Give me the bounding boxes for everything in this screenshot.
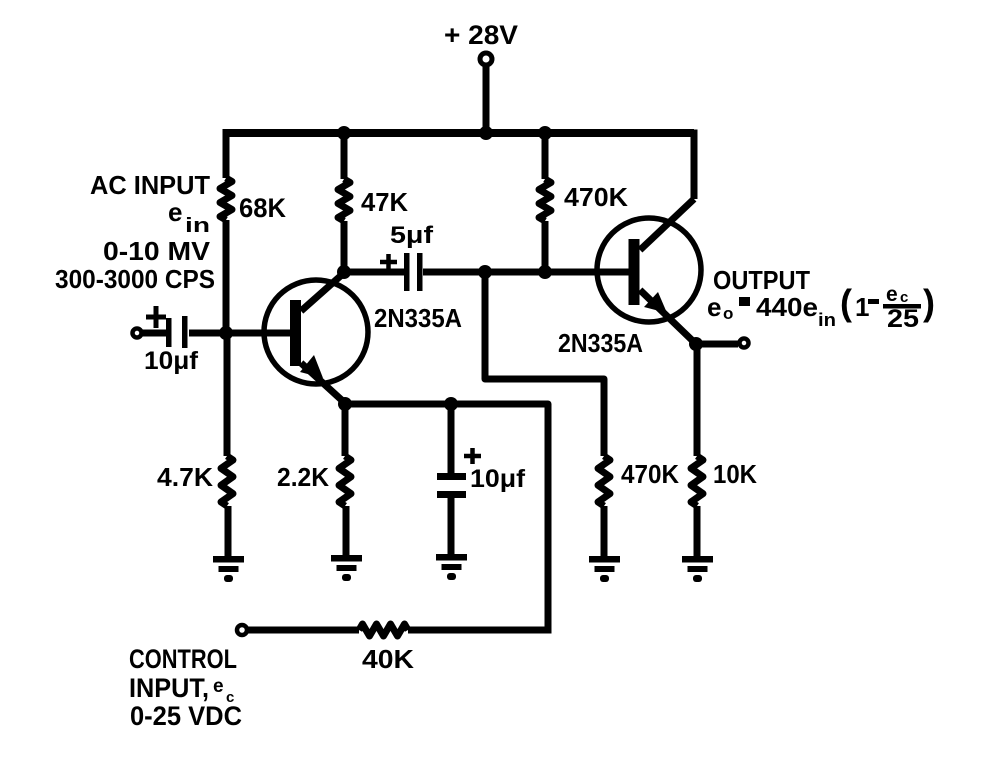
ground 10K: [682, 556, 713, 582]
wire Q2 emitter to output and 10K: [696, 341, 738, 348]
svg-text:AC INPUT: AC INPUT: [90, 170, 210, 200]
svg-text:440e: 440e: [756, 292, 818, 322]
resistor 10K: [691, 456, 703, 506]
svg-text:OUTPUT: OUTPUT: [713, 265, 810, 295]
ground 2.2K: [331, 555, 362, 581]
terminal output: [740, 339, 749, 348]
wire 5uf cap to Q2 base: [423, 269, 629, 276]
svg-text:e: e: [168, 197, 182, 227]
capacitor 5uf: [380, 253, 423, 291]
wire 470K-bottom to ground: [601, 506, 608, 559]
ground 10uf: [436, 554, 467, 580]
svg-text:10μf: 10μf: [470, 465, 526, 493]
svg-text:e: e: [213, 676, 224, 697]
wire input cap to base Q1: [189, 330, 291, 337]
svg-text:1: 1: [855, 292, 869, 322]
wire Q2 base bias to 470K-bottom: [485, 269, 604, 457]
wire collector node to 5uf cap: [344, 269, 404, 276]
node emitter2-output: [689, 337, 703, 351]
svg-text:470K: 470K: [564, 182, 628, 212]
svg-text:470K: 470K: [621, 459, 679, 489]
wire +28V drop: [483, 62, 490, 133]
node emitter1: [338, 397, 352, 411]
capacitor bypass 10uf: [437, 448, 481, 498]
wire Q1 emitter to 2.2K: [342, 404, 349, 456]
label INPUT e_c: [129, 673, 234, 706]
svg-text:c: c: [900, 289, 908, 306]
svg-text:0-25 VDC: 0-25 VDC: [130, 701, 242, 731]
wire 40K to emitter corner: [408, 627, 552, 634]
resistor 40K: [359, 624, 408, 636]
wire 470K-top branch upper: [542, 130, 549, 180]
svg-text:2.2K: 2.2K: [277, 462, 329, 492]
resistor 2.2K: [339, 456, 351, 506]
wire 10K to ground: [694, 506, 701, 559]
wire 4.7K to ground: [225, 506, 232, 558]
resistor R 4.7K: [221, 456, 233, 506]
terminal AC input: [133, 329, 142, 338]
wire Q2 emitter down: [694, 344, 701, 456]
wire bypass node to 10uf cap: [448, 404, 455, 474]
wire 2.2K to ground: [343, 506, 350, 558]
svg-text:47K: 47K: [361, 187, 408, 217]
wire Q1 emitter node right and down to control line: [345, 404, 548, 630]
node base2-470K: [538, 265, 552, 279]
svg-text:4.7K: 4.7K: [157, 462, 213, 492]
svg-text:40K: 40K: [362, 644, 414, 674]
node collector-47K: [337, 265, 351, 279]
svg-text:in: in: [818, 310, 836, 330]
svg-text:): ): [923, 282, 935, 323]
terminal +28V: [480, 53, 492, 65]
svg-text:0-10 MV: 0-10 MV: [103, 236, 211, 266]
label output formula: [707, 282, 935, 333]
node rail-470K: [538, 126, 552, 140]
wire input node down to 4.7K: [224, 333, 231, 456]
svg-text:2N335A: 2N335A: [558, 328, 643, 358]
transistor Q2 2N335A: [597, 199, 701, 344]
resistor 470K top: [539, 179, 551, 221]
node rail-47K: [337, 126, 351, 140]
transistor Q1 2N335A: [264, 272, 368, 404]
resistor 47K: [338, 179, 350, 221]
svg-text:+ 28V: + 28V: [444, 20, 518, 50]
wire input terminal to cap: [141, 330, 167, 337]
svg-text:in: in: [185, 215, 210, 237]
svg-text:25: 25: [887, 305, 919, 333]
wire 68K branch upper: [223, 130, 230, 179]
terminal control input: [237, 625, 247, 635]
svg-text:CONTROL: CONTROL: [129, 644, 237, 674]
resistor 470K bottom: [598, 456, 610, 506]
ground 4.7K: [213, 556, 244, 582]
wire control input line: [247, 627, 359, 634]
node rail-28V: [479, 126, 493, 140]
resistor 68K: [220, 178, 232, 220]
wire 47K to collector node: [341, 221, 348, 272]
wire rail right corner down to Q2 collector: [691, 130, 698, 200]
svg-text:2N335A: 2N335A: [374, 303, 462, 333]
svg-text:300-3000 CPS: 300-3000 CPS: [55, 264, 215, 294]
wire top supply rail: [223, 129, 695, 137]
svg-text:e: e: [707, 292, 721, 322]
node bias: [478, 265, 492, 279]
node input-base: [219, 326, 233, 340]
ground 470K: [589, 556, 620, 582]
svg-text:(: (: [840, 282, 852, 323]
svg-text:e: e: [886, 283, 898, 306]
wire 10uf cap to ground: [448, 497, 455, 557]
svg-text:10K: 10K: [713, 459, 757, 489]
wire 68K to input node: [223, 220, 230, 333]
capacitor input 10uf: [146, 306, 188, 348]
wire 47K branch upper: [341, 130, 348, 180]
svg-text:68K: 68K: [239, 193, 286, 223]
svg-text:o: o: [723, 304, 733, 323]
svg-text:10μf: 10μf: [144, 347, 199, 375]
node bypass: [444, 397, 458, 411]
wire 470K-top to base node: [542, 221, 549, 272]
svg-text:5μf: 5μf: [390, 222, 434, 249]
svg-text:INPUT,: INPUT,: [129, 673, 209, 703]
